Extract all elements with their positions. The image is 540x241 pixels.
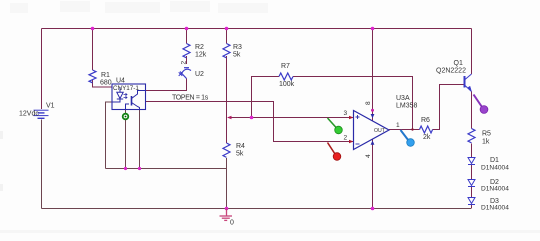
svg-text:0: 0: [230, 220, 234, 227]
resistor R5: [468, 129, 475, 143]
svg-text:12k: 12k: [195, 52, 207, 59]
svg-text:R4: R4: [236, 143, 245, 150]
wire Q1 emitter to R5: [471, 92, 473, 129]
svg-text:2: 2: [344, 135, 348, 142]
pin arrow op-amp pin8: [371, 109, 374, 112]
op-amp plus sign: [356, 115, 360, 119]
svg-text:Q1: Q1: [454, 60, 463, 67]
wire op-amp pin 8 to top rail: [372, 29, 374, 122]
svg-text:D1N4004: D1N4004: [481, 205, 509, 212]
svg-text:2: 2: [181, 61, 188, 65]
wire R7 left leg: [252, 77, 280, 118]
probe marker purple emitter: [474, 95, 483, 108]
wire bottom rail (ground net): [42, 208, 472, 210]
svg-text:1k: 1k: [482, 139, 490, 146]
junction dot R7 on pin3 net: [250, 116, 254, 120]
wire R2 top: [186, 29, 188, 44]
probe marker blue output: [401, 130, 409, 141]
diode D1: [468, 158, 475, 165]
wire R5 to D1: [471, 144, 473, 158]
wire R1 bottom to U4 anode: [93, 80, 113, 87]
junction dot rail R1: [91, 27, 95, 31]
wire op-amp pin 4 to ground rail: [372, 140, 374, 209]
svg-text:V1: V1: [46, 103, 55, 110]
junction dot rail R3: [225, 27, 229, 31]
optocoupler U4 box: [112, 84, 146, 110]
svg-text:R7: R7: [281, 63, 290, 70]
resistor R2: [183, 44, 190, 58]
wire Q1 collector to top rail: [471, 29, 473, 75]
ground 0 symbol: [225, 207, 229, 211]
svg-text:D1N4004: D1N4004: [481, 165, 509, 172]
wire R6 to Q1 base: [433, 85, 464, 130]
resistor R4: [223, 143, 230, 157]
diode D3: [468, 198, 475, 205]
svg-text:R6: R6: [421, 117, 430, 124]
wire op-amp output to R6: [389, 129, 420, 131]
svg-text:R2: R2: [195, 44, 204, 51]
svg-text:8: 8: [365, 101, 372, 105]
svg-text:R1: R1: [101, 72, 110, 79]
resistor R3: [223, 44, 230, 58]
pin arrow divider tap: [227, 116, 232, 120]
wire D2 to D3: [471, 187, 473, 198]
voltage source V1: [34, 110, 49, 118]
svg-text:100k: 100k: [279, 81, 295, 88]
svg-text:R5: R5: [482, 131, 491, 138]
probe ring U4 base: [123, 114, 129, 120]
svg-text:Q2N2222: Q2N2222: [436, 68, 466, 75]
U4 internal LED: [112, 87, 127, 102]
svg-text:12Vdc: 12Vdc: [19, 111, 39, 118]
svg-text:D1: D1: [490, 157, 499, 164]
resistor R6 horizontal: [420, 126, 433, 133]
svg-text:5k: 5k: [233, 52, 241, 59]
U4 internal phototransistor: [126, 91, 146, 110]
pin arrow op-amp pin2: [349, 140, 354, 144]
wire R4 bottom to ground rail: [226, 158, 228, 209]
op-amp U3A: [354, 111, 390, 150]
svg-text:4: 4: [365, 154, 372, 158]
wire divider tap to op-amp non-inverting input: [228, 117, 354, 119]
svg-text:1: 1: [396, 122, 400, 129]
junction dot U4 base net: [124, 167, 127, 170]
wire top rail: [42, 28, 472, 30]
junction dot feedback output: [411, 128, 413, 130]
svg-text:LM358: LM358: [396, 103, 418, 110]
svg-text:U2: U2: [195, 71, 204, 78]
transistor Q1: [465, 74, 472, 92]
pin arrow op-amp pin4: [371, 141, 375, 145]
svg-text:D1N4004: D1N4004: [481, 186, 509, 193]
wire D1 to D2: [471, 165, 473, 180]
wire R2 bottom to U2: [186, 56, 188, 64]
svg-text:U3A: U3A: [396, 95, 410, 102]
probe marker green pin3: [328, 118, 337, 128]
junction dot rail pin8: [371, 27, 375, 31]
wire V1 negative lead: [41, 120, 43, 209]
switch U2: [179, 68, 191, 79]
svg-text:5k: 5k: [236, 151, 244, 158]
resistor R1: [89, 70, 96, 83]
wire V1 positive lead: [41, 29, 43, 110]
svg-text:OUT: OUT: [374, 128, 386, 134]
resistor R7 horizontal: [279, 73, 293, 80]
junction dot pin4 ground: [371, 207, 375, 211]
svg-text:CNY17-1: CNY17-1: [113, 85, 139, 92]
wire U4 base pin down: [125, 110, 127, 169]
svg-text:R3: R3: [233, 44, 242, 51]
wire R7 right to output: [293, 77, 413, 130]
wire U4 bottom net to ground: [106, 168, 227, 170]
wire R1 top: [92, 29, 94, 71]
svg-text:U4: U4: [116, 78, 125, 85]
wire U4 emitter pin down: [139, 110, 141, 169]
junction dot U4 emitter net: [138, 167, 141, 170]
junction dot rail R2: [185, 27, 189, 31]
diode D2: [468, 180, 475, 187]
wire R3 to R4 divider: [226, 56, 228, 143]
wire U2 bottom to U4 collector: [146, 79, 187, 91]
svg-text:3: 3: [344, 110, 348, 117]
svg-text:TOPEN = 1s: TOPEN = 1s: [172, 95, 209, 102]
probe marker red pin2: [328, 143, 336, 155]
wire U4 cathode stub: [106, 102, 113, 169]
wire U4 output to op-amp inverting input: [146, 102, 354, 142]
wire R3 top: [226, 29, 228, 44]
svg-text:680: 680: [100, 80, 112, 87]
wire D3 to ground rail: [471, 205, 473, 209]
op-amp minus sign: [356, 143, 360, 145]
pin arrow op-amp pin3: [349, 116, 354, 120]
svg-text:2k: 2k: [423, 134, 431, 141]
